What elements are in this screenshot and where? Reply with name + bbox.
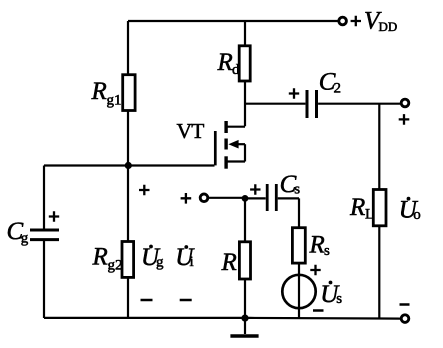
- label + of Ui input: [181, 193, 192, 204]
- svg-text:s: s: [294, 182, 300, 198]
- svg-text:R: R: [92, 244, 108, 271]
- svg-text:s: s: [336, 291, 342, 307]
- source Us (circle): [282, 275, 315, 308]
- wire RL branch (x=378): [378, 104, 380, 319]
- label +VDD: [351, 16, 361, 26]
- resistor Rg2: [122, 242, 134, 278]
- label Rg2: [92, 244, 123, 274]
- node ground (junction dot): [241, 315, 248, 322]
- resistor Rd: [239, 46, 250, 81]
- wire R branch (source node to bottom rail): [244, 198, 246, 318]
- label Ui: [175, 244, 195, 271]
- svg-text:DD: DD: [379, 19, 398, 34]
- svg-text:g2: g2: [108, 258, 123, 274]
- wire drain branch (x=245, VDD rail to MOSFET drain): [244, 21, 246, 126]
- resistor Rs: [292, 228, 305, 263]
- label minus of Ui: [180, 299, 192, 302]
- svg-text:g1: g1: [107, 93, 122, 109]
- transistor VT (MOSFET): [215, 121, 245, 169]
- label Uo: [399, 197, 421, 224]
- wire source node to Cs: [245, 197, 266, 199]
- svg-text:R: R: [221, 249, 237, 276]
- node source (junction dot): [242, 195, 249, 202]
- terminal output top: [401, 99, 409, 107]
- svg-text:i: i: [190, 254, 194, 270]
- svg-text:VT: VT: [177, 119, 205, 143]
- node gate (junction dot): [125, 162, 132, 169]
- label Rg1: [91, 78, 122, 109]
- label minus of output: [400, 303, 410, 306]
- resistor R: [239, 242, 250, 279]
- wire Cs to Rs: [278, 198, 299, 228]
- wire left Cg branch upper (x=44): [43, 166, 45, 229]
- label Cs: [280, 171, 301, 198]
- wire Rs to bottom rail through Us: [298, 263, 300, 318]
- svg-text:L: L: [365, 207, 374, 223]
- label Ug: [141, 244, 164, 271]
- ground: [230, 318, 258, 336]
- label R: [221, 249, 237, 276]
- svg-text:R: R: [217, 49, 233, 76]
- label + of Ug: [139, 185, 150, 195]
- svg-text:o: o: [413, 207, 421, 223]
- terminal output bottom: [401, 315, 409, 323]
- wire drain to C2: [245, 103, 305, 105]
- svg-text:d: d: [232, 62, 240, 78]
- label minus of Ug: [141, 299, 153, 302]
- wire left branch Rg1 (x=128, VDD rail to gate node): [127, 21, 129, 166]
- label + of Us: [310, 265, 320, 275]
- svg-text:g: g: [156, 255, 164, 271]
- label minus of Us: [313, 309, 324, 312]
- svg-text:s: s: [324, 243, 330, 259]
- label + of output: [399, 114, 410, 125]
- svg-text:R: R: [91, 78, 107, 105]
- svg-text:g: g: [21, 231, 29, 247]
- label Us: [320, 281, 342, 308]
- resistor Rg1: [123, 75, 135, 111]
- label + of Cg: [49, 211, 59, 221]
- capacitor Cg: [30, 230, 59, 240]
- resistor RL: [373, 190, 386, 226]
- wire input lead to source node: [208, 197, 245, 199]
- terminal input: [200, 194, 208, 202]
- svg-text:R: R: [309, 232, 325, 259]
- wire C2 to output terminal: [318, 103, 400, 105]
- svg-text:2: 2: [334, 81, 342, 97]
- wire left Cg branch lower (x=44): [43, 241, 45, 318]
- label Rd: [217, 49, 241, 78]
- terminal +VDD: [339, 17, 347, 25]
- label + of Cs: [250, 184, 260, 194]
- wire top VDD rail: [128, 20, 338, 22]
- svg-text:R: R: [349, 194, 365, 221]
- label Cg: [7, 218, 29, 247]
- label RL: [349, 194, 374, 223]
- label + of C2: [289, 88, 299, 98]
- label VT: [177, 119, 205, 143]
- wire Rg2 branch (x=128, gate node to bottom rail): [127, 166, 129, 319]
- label Rs: [309, 232, 331, 260]
- wire bottom rail: [44, 317, 400, 320]
- label C2: [319, 69, 341, 97]
- wire gate horizontal (Cg branch to MOSFET gate): [44, 164, 215, 166]
- capacitor C2: [307, 90, 317, 118]
- capacitor Cs: [267, 184, 276, 211]
